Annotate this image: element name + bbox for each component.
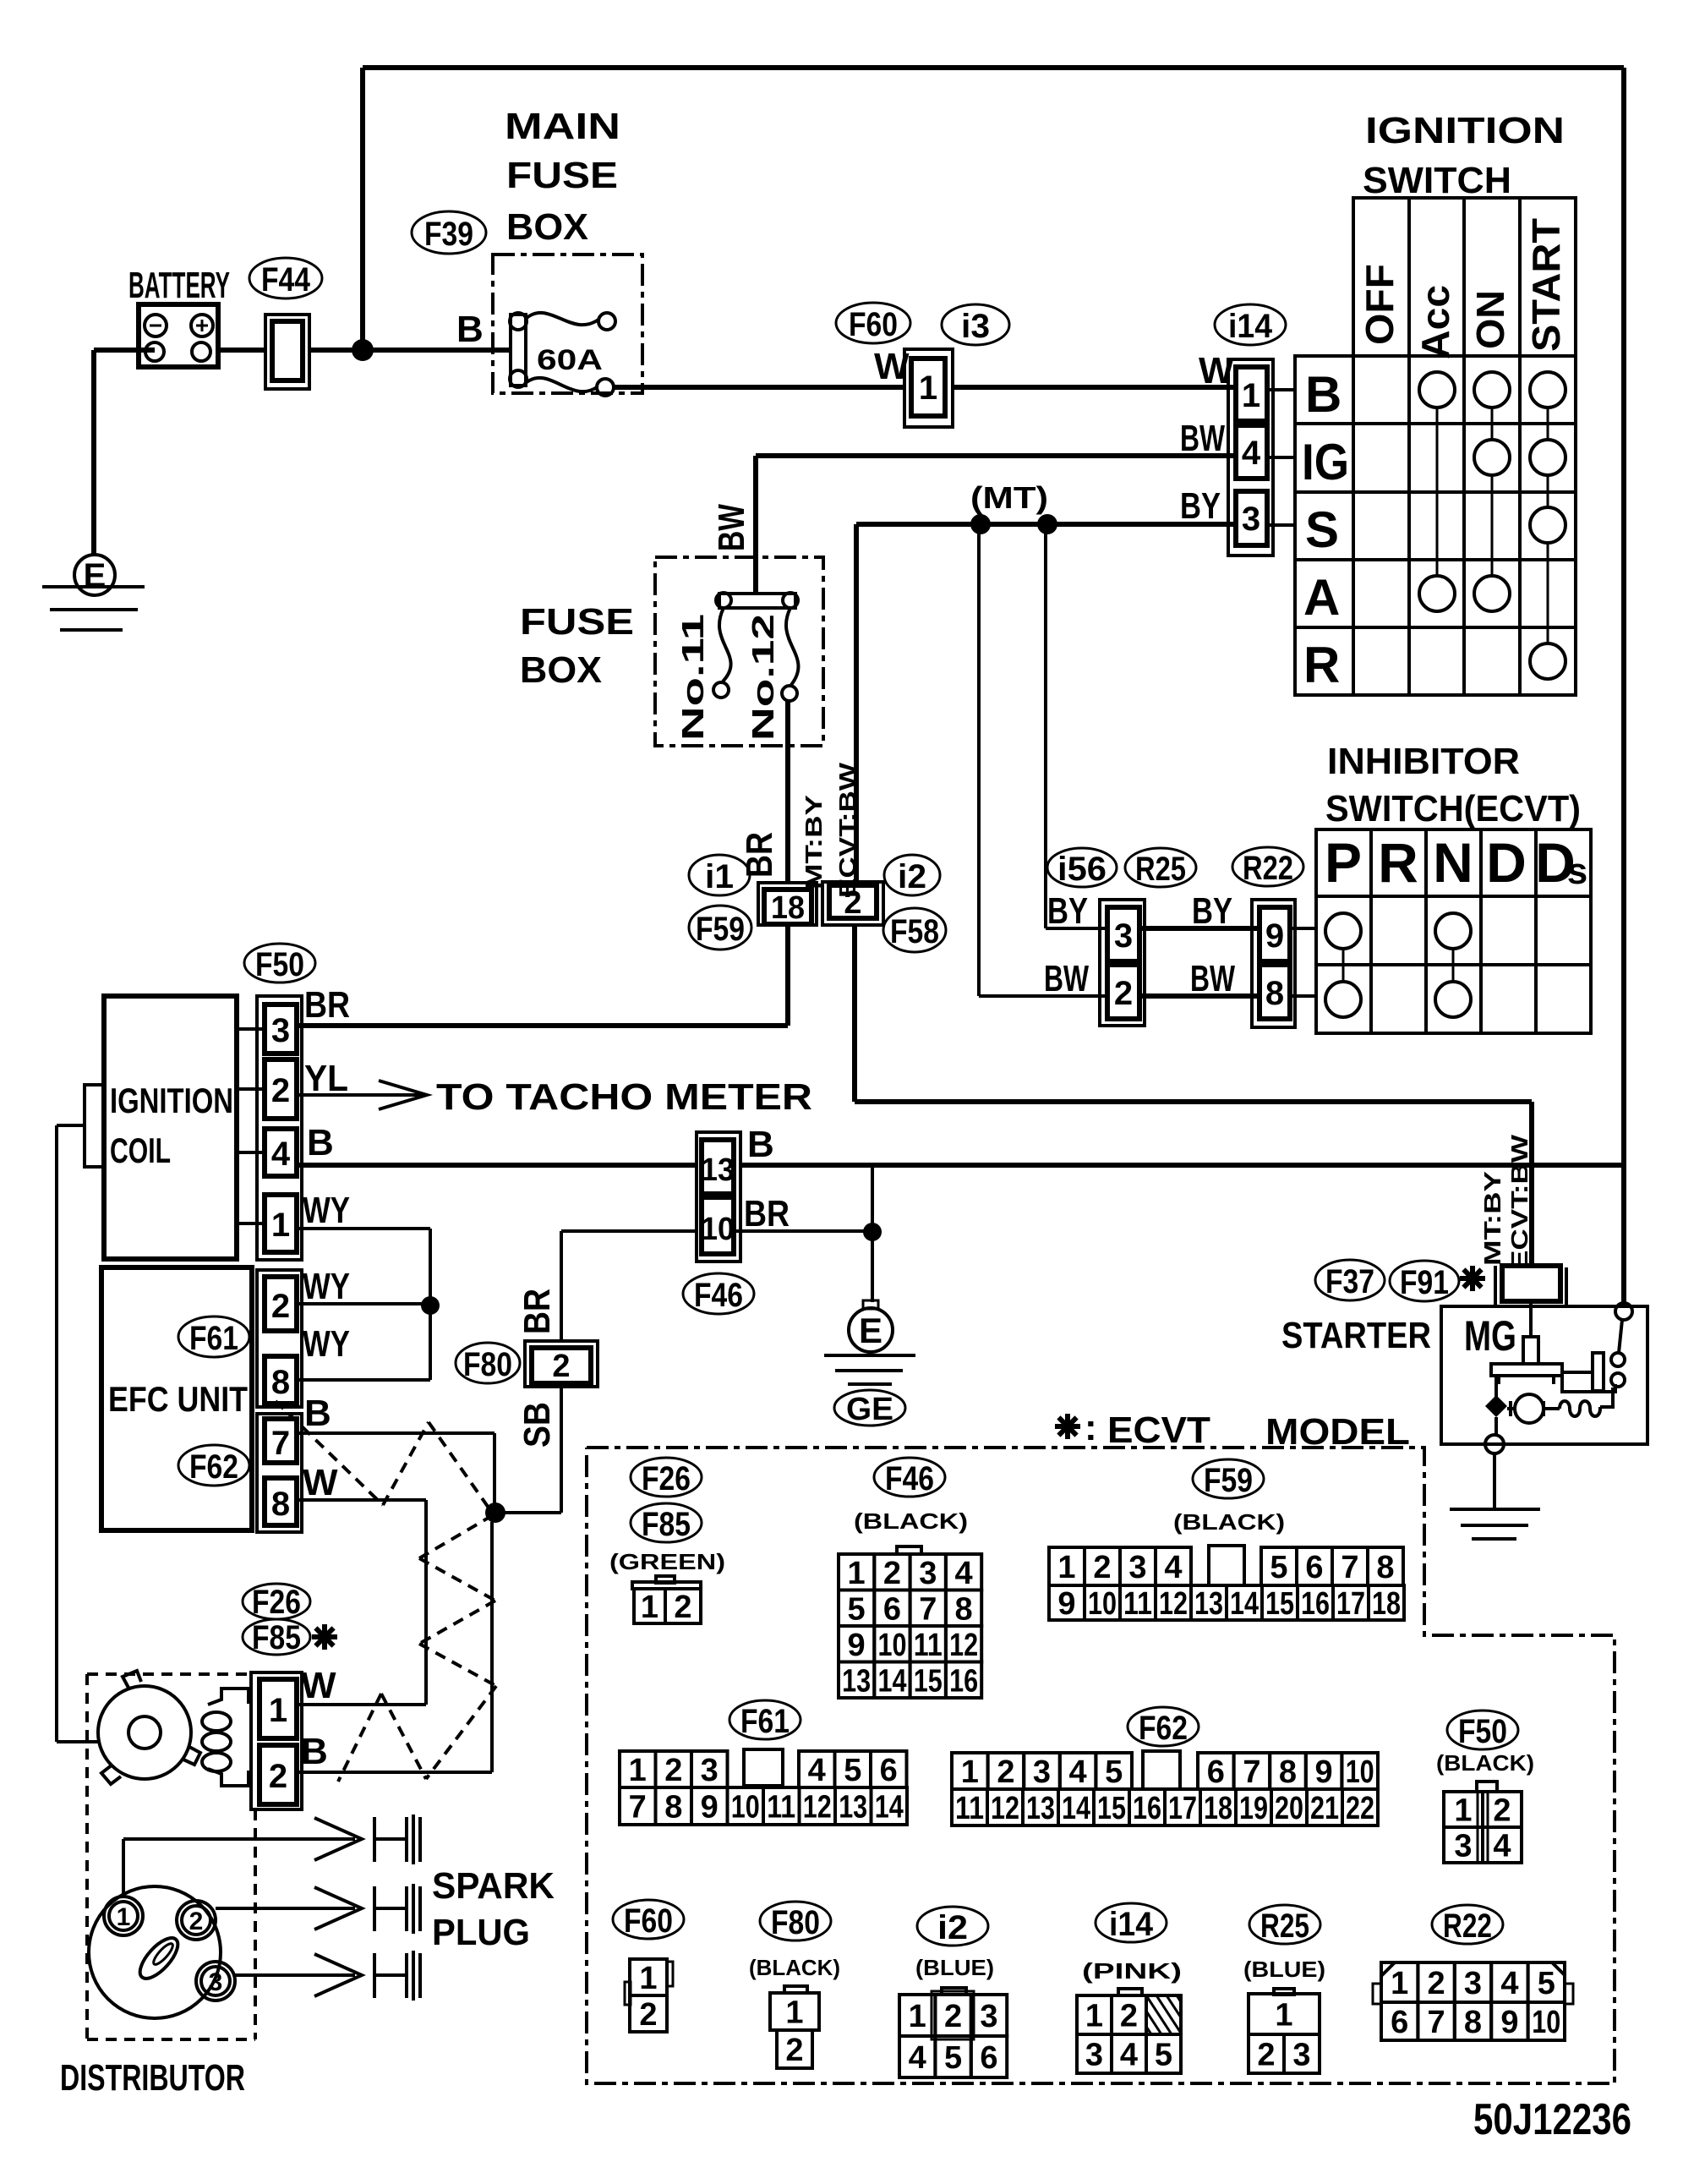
svg-text:15: 15 bbox=[914, 1663, 943, 1699]
svg-text:9: 9 bbox=[848, 1628, 866, 1663]
svg-text:4: 4 bbox=[1069, 1754, 1087, 1790]
svg-text:1: 1 bbox=[1391, 1966, 1408, 2001]
svg-text:BW: BW bbox=[1044, 958, 1089, 999]
svg-text:4: 4 bbox=[909, 2040, 926, 2076]
svg-text:12: 12 bbox=[991, 1791, 1019, 1826]
svg-text:MG: MG bbox=[1464, 1312, 1516, 1360]
svg-text:6: 6 bbox=[1207, 1754, 1225, 1790]
svg-text:F85: F85 bbox=[252, 1619, 301, 1656]
svg-text:2: 2 bbox=[552, 1349, 570, 1384]
svg-text:7: 7 bbox=[271, 1425, 290, 1462]
svg-text:15: 15 bbox=[1265, 1586, 1294, 1622]
svg-text:6: 6 bbox=[980, 2040, 997, 2076]
svg-text:2: 2 bbox=[674, 1590, 691, 1625]
svg-text:WY: WY bbox=[303, 1266, 350, 1307]
svg-text:B: B bbox=[1305, 366, 1341, 423]
svg-text:4: 4 bbox=[271, 1136, 291, 1173]
svg-text:2: 2 bbox=[1093, 1550, 1111, 1585]
svg-text:4: 4 bbox=[1493, 1829, 1511, 1864]
svg-text:ECVT:BW: ECVT:BW bbox=[834, 762, 861, 898]
svg-text:F58: F58 bbox=[890, 913, 939, 950]
svg-text:IGNITION: IGNITION bbox=[110, 1081, 233, 1120]
svg-text:START: START bbox=[1524, 218, 1568, 352]
svg-text:1: 1 bbox=[117, 1903, 131, 1931]
svg-text:BW: BW bbox=[1190, 958, 1235, 999]
svg-text:4: 4 bbox=[955, 1556, 973, 1591]
svg-text:11: 11 bbox=[767, 1790, 795, 1825]
svg-text:3: 3 bbox=[1114, 917, 1133, 955]
svg-text:BOX: BOX bbox=[506, 206, 588, 248]
svg-text:5: 5 bbox=[1155, 2038, 1172, 2073]
svg-text:13: 13 bbox=[1194, 1586, 1223, 1622]
svg-text:BY: BY bbox=[1192, 890, 1232, 932]
svg-text:YL: YL bbox=[304, 1058, 348, 1099]
svg-text:F26: F26 bbox=[642, 1460, 691, 1497]
svg-text:9: 9 bbox=[1265, 917, 1284, 955]
svg-text:13: 13 bbox=[839, 1790, 867, 1825]
svg-text:FUSE: FUSE bbox=[520, 601, 634, 643]
svg-text:MT:BY: MT:BY bbox=[801, 795, 827, 889]
svg-text:i14: i14 bbox=[1228, 308, 1273, 345]
svg-text:F50: F50 bbox=[255, 946, 304, 983]
svg-text:15: 15 bbox=[1097, 1791, 1126, 1826]
svg-text:F59: F59 bbox=[1204, 1462, 1253, 1499]
svg-text:(BLUE): (BLUE) bbox=[1243, 1957, 1325, 1982]
svg-text:F62: F62 bbox=[189, 1448, 238, 1486]
svg-text:1: 1 bbox=[1242, 377, 1260, 414]
svg-text:3: 3 bbox=[980, 1999, 997, 2034]
svg-text:3: 3 bbox=[209, 1968, 223, 1996]
svg-text:1: 1 bbox=[961, 1754, 979, 1790]
svg-text:17: 17 bbox=[1336, 1586, 1365, 1622]
svg-text:F80: F80 bbox=[771, 1904, 820, 1941]
svg-text:5: 5 bbox=[1270, 1550, 1287, 1585]
svg-text:8: 8 bbox=[1376, 1550, 1394, 1585]
svg-text:1: 1 bbox=[909, 1999, 926, 2034]
svg-text:2: 2 bbox=[639, 1997, 657, 2033]
svg-text:20: 20 bbox=[1275, 1791, 1303, 1826]
svg-text:21: 21 bbox=[1310, 1791, 1339, 1826]
svg-text:16: 16 bbox=[949, 1663, 978, 1699]
svg-text:12: 12 bbox=[803, 1790, 832, 1825]
svg-text:F59: F59 bbox=[696, 911, 745, 948]
svg-text:9: 9 bbox=[1057, 1586, 1075, 1622]
svg-text:OFF: OFF bbox=[1358, 264, 1402, 345]
svg-text:No.12: No.12 bbox=[746, 614, 780, 741]
svg-text:B: B bbox=[747, 1124, 774, 1165]
svg-text:1: 1 bbox=[1057, 1550, 1075, 1585]
svg-text:18: 18 bbox=[771, 890, 805, 926]
svg-text:14: 14 bbox=[875, 1790, 904, 1825]
svg-text:GE: GE bbox=[846, 1392, 893, 1427]
svg-text:DISTRIBUTOR: DISTRIBUTOR bbox=[60, 2057, 245, 2099]
svg-text:SPARK: SPARK bbox=[432, 1865, 555, 1907]
svg-text:2: 2 bbox=[1120, 1999, 1138, 2034]
svg-text:SB: SB bbox=[516, 1402, 558, 1448]
svg-text:2: 2 bbox=[944, 1999, 962, 2034]
svg-text:6: 6 bbox=[883, 1591, 901, 1627]
svg-text:10: 10 bbox=[1532, 2005, 1560, 2040]
svg-text:R25: R25 bbox=[1260, 1908, 1309, 1945]
svg-text:COIL: COIL bbox=[110, 1130, 171, 1170]
svg-text:1: 1 bbox=[785, 1995, 803, 2031]
svg-text:8: 8 bbox=[1464, 2005, 1482, 2040]
svg-text:s: s bbox=[1567, 851, 1587, 892]
svg-text:F85: F85 bbox=[642, 1506, 691, 1543]
svg-text:5: 5 bbox=[944, 2040, 962, 2076]
svg-text:7: 7 bbox=[629, 1790, 647, 1825]
svg-text:SWITCH: SWITCH bbox=[1363, 160, 1511, 201]
svg-text:BY: BY bbox=[1180, 485, 1221, 527]
svg-text:(BLACK): (BLACK) bbox=[1436, 1750, 1534, 1776]
svg-text:11: 11 bbox=[955, 1791, 984, 1826]
svg-text:BR: BR bbox=[516, 1289, 558, 1334]
svg-text:1: 1 bbox=[271, 1207, 290, 1244]
svg-text:F39: F39 bbox=[424, 216, 473, 253]
svg-text:1: 1 bbox=[641, 1590, 658, 1625]
svg-text:EFC UNIT: EFC UNIT bbox=[108, 1379, 248, 1419]
svg-text:(GREEN): (GREEN) bbox=[609, 1549, 725, 1574]
svg-text:2: 2 bbox=[664, 1753, 682, 1788]
svg-text:F46: F46 bbox=[885, 1460, 934, 1497]
svg-text:BOX: BOX bbox=[520, 649, 602, 691]
svg-text:18: 18 bbox=[1204, 1791, 1232, 1826]
svg-text:R25: R25 bbox=[1135, 851, 1186, 888]
svg-text:1: 1 bbox=[629, 1753, 647, 1788]
svg-text:F80: F80 bbox=[463, 1346, 512, 1383]
svg-text:10: 10 bbox=[1346, 1754, 1374, 1790]
svg-text:B: B bbox=[307, 1122, 334, 1163]
svg-text:2: 2 bbox=[1114, 975, 1133, 1012]
svg-text:5: 5 bbox=[848, 1591, 866, 1627]
svg-text:i3: i3 bbox=[961, 308, 990, 345]
svg-text:A: A bbox=[1303, 569, 1340, 626]
svg-text:3: 3 bbox=[1454, 1829, 1472, 1864]
svg-text:7: 7 bbox=[1243, 1754, 1260, 1790]
svg-text:F61: F61 bbox=[189, 1320, 238, 1357]
svg-text:W: W bbox=[301, 1665, 336, 1706]
svg-text:F62: F62 bbox=[1139, 1710, 1188, 1747]
svg-text:ECVT:BW: ECVT:BW bbox=[1506, 1134, 1533, 1270]
svg-text:4: 4 bbox=[1242, 435, 1261, 472]
svg-text:2: 2 bbox=[1257, 2038, 1275, 2073]
svg-text:2: 2 bbox=[1428, 1966, 1445, 2001]
svg-text:9: 9 bbox=[1315, 1754, 1333, 1790]
svg-text:5: 5 bbox=[844, 1753, 861, 1788]
svg-text:9: 9 bbox=[701, 1790, 719, 1825]
svg-text:14: 14 bbox=[1230, 1586, 1259, 1622]
svg-text:No.11: No.11 bbox=[675, 614, 710, 741]
svg-text:Acc: Acc bbox=[1413, 285, 1457, 359]
svg-text:3: 3 bbox=[1033, 1754, 1051, 1790]
svg-text:13: 13 bbox=[701, 1152, 735, 1188]
svg-text:9: 9 bbox=[1500, 2005, 1518, 2040]
svg-text:WY: WY bbox=[303, 1323, 350, 1365]
svg-text:(BLACK): (BLACK) bbox=[749, 1955, 840, 1980]
svg-text:5: 5 bbox=[1538, 1966, 1555, 2001]
svg-text:BR: BR bbox=[744, 1193, 790, 1234]
svg-text:STARTER: STARTER bbox=[1281, 1315, 1431, 1356]
svg-text:2: 2 bbox=[189, 1908, 204, 1935]
svg-text:7: 7 bbox=[1428, 2005, 1445, 2040]
svg-text:E: E bbox=[84, 557, 107, 594]
svg-text:i1: i1 bbox=[705, 858, 734, 895]
svg-text:ECVT: ECVT bbox=[1107, 1409, 1210, 1451]
svg-text:TO TACHO METER: TO TACHO METER bbox=[436, 1076, 812, 1118]
svg-text:14: 14 bbox=[1062, 1791, 1090, 1826]
svg-text:F61: F61 bbox=[740, 1703, 790, 1740]
svg-text:2: 2 bbox=[997, 1754, 1014, 1790]
svg-text:IG: IG bbox=[1302, 434, 1349, 490]
svg-text:1: 1 bbox=[269, 1692, 287, 1729]
svg-text:13: 13 bbox=[1026, 1791, 1055, 1826]
svg-text:6: 6 bbox=[1305, 1550, 1323, 1585]
svg-text:(MT): (MT) bbox=[970, 480, 1048, 515]
svg-text:WY: WY bbox=[303, 1190, 350, 1231]
svg-text:10: 10 bbox=[731, 1790, 760, 1825]
svg-text:2: 2 bbox=[271, 1072, 290, 1109]
svg-text:6: 6 bbox=[880, 1753, 898, 1788]
svg-text:2: 2 bbox=[269, 1758, 287, 1795]
svg-text:3: 3 bbox=[1242, 501, 1260, 538]
svg-text:7: 7 bbox=[919, 1591, 937, 1627]
svg-text:3: 3 bbox=[271, 1012, 290, 1049]
svg-text:2: 2 bbox=[785, 2033, 803, 2068]
svg-text:8: 8 bbox=[271, 1486, 290, 1523]
svg-text:INHIBITOR: INHIBITOR bbox=[1327, 741, 1520, 782]
svg-text::: : bbox=[1085, 1407, 1097, 1448]
svg-text:4: 4 bbox=[1164, 1550, 1182, 1585]
svg-text:2: 2 bbox=[883, 1556, 901, 1591]
svg-text:F91: F91 bbox=[1400, 1264, 1449, 1301]
svg-text:MAIN: MAIN bbox=[505, 106, 620, 147]
svg-text:i56: i56 bbox=[1057, 851, 1107, 888]
svg-text:F60: F60 bbox=[624, 1902, 673, 1940]
svg-text:10: 10 bbox=[701, 1212, 735, 1247]
svg-text:R22: R22 bbox=[1243, 850, 1293, 887]
svg-text:3: 3 bbox=[1292, 2038, 1310, 2073]
svg-text:2: 2 bbox=[844, 885, 861, 921]
svg-text:R: R bbox=[1378, 831, 1418, 894]
svg-text:F26: F26 bbox=[252, 1584, 301, 1621]
svg-text:BR: BR bbox=[739, 832, 780, 878]
svg-text:E: E bbox=[859, 1311, 882, 1350]
svg-text:BR: BR bbox=[304, 984, 350, 1026]
svg-text:6: 6 bbox=[1391, 2005, 1408, 2040]
svg-text:22: 22 bbox=[1346, 1791, 1374, 1826]
svg-text:(BLACK): (BLACK) bbox=[854, 1508, 968, 1534]
svg-text:B: B bbox=[301, 1731, 328, 1772]
svg-text:(BLUE): (BLUE) bbox=[915, 1955, 994, 1980]
svg-text:MT:BY: MT:BY bbox=[1479, 1171, 1505, 1266]
svg-text:50J12236: 50J12236 bbox=[1473, 2095, 1631, 2144]
svg-text:7: 7 bbox=[1341, 1550, 1358, 1585]
svg-text:3: 3 bbox=[1464, 1966, 1482, 2001]
svg-text:1: 1 bbox=[1085, 1999, 1103, 2034]
svg-text:11: 11 bbox=[1123, 1586, 1152, 1622]
svg-text:8: 8 bbox=[1279, 1754, 1297, 1790]
svg-text:S: S bbox=[1305, 501, 1339, 558]
svg-text:12: 12 bbox=[1159, 1586, 1188, 1622]
svg-text:W: W bbox=[303, 1462, 338, 1503]
svg-text:F50: F50 bbox=[1458, 1713, 1507, 1750]
svg-text:W: W bbox=[1199, 350, 1234, 391]
svg-text:P: P bbox=[1325, 831, 1362, 894]
svg-text:10: 10 bbox=[1088, 1586, 1117, 1622]
svg-text:(PINK): (PINK) bbox=[1082, 1958, 1182, 1984]
svg-text:3: 3 bbox=[919, 1556, 937, 1591]
svg-text:14: 14 bbox=[878, 1663, 907, 1699]
svg-text:5: 5 bbox=[1105, 1754, 1123, 1790]
svg-text:4: 4 bbox=[1120, 2038, 1138, 2073]
svg-text:60A: 60A bbox=[537, 344, 603, 376]
svg-text:i14: i14 bbox=[1109, 1906, 1154, 1943]
svg-text:3: 3 bbox=[1128, 1550, 1146, 1585]
svg-text:3: 3 bbox=[701, 1753, 719, 1788]
svg-text:R22: R22 bbox=[1443, 1908, 1492, 1945]
svg-text:BW: BW bbox=[1180, 418, 1225, 459]
svg-text:1: 1 bbox=[848, 1556, 866, 1591]
svg-text:1: 1 bbox=[919, 369, 937, 407]
svg-text:(BLACK): (BLACK) bbox=[1173, 1509, 1285, 1535]
svg-text:3: 3 bbox=[1085, 2038, 1103, 2073]
svg-text:F46: F46 bbox=[694, 1277, 743, 1314]
svg-text:17: 17 bbox=[1168, 1791, 1197, 1826]
svg-text:8: 8 bbox=[1265, 975, 1284, 1012]
svg-text:SWITCH(ECVT): SWITCH(ECVT) bbox=[1325, 788, 1581, 829]
svg-text:IGNITION: IGNITION bbox=[1365, 110, 1565, 151]
svg-text:1: 1 bbox=[1275, 1998, 1292, 2033]
svg-text:i2: i2 bbox=[898, 858, 926, 895]
svg-text:12: 12 bbox=[949, 1628, 978, 1663]
svg-text:N: N bbox=[1433, 831, 1473, 894]
svg-text:8: 8 bbox=[664, 1790, 682, 1825]
svg-text:16: 16 bbox=[1301, 1586, 1330, 1622]
svg-text:R: R bbox=[1303, 637, 1340, 693]
svg-text:PLUG: PLUG bbox=[432, 1912, 530, 1953]
svg-text:FUSE: FUSE bbox=[506, 155, 618, 196]
svg-text:1: 1 bbox=[1454, 1793, 1472, 1829]
svg-text:i2: i2 bbox=[937, 1909, 968, 1946]
svg-text:F37: F37 bbox=[1325, 1263, 1374, 1300]
svg-text:BW: BW bbox=[711, 504, 752, 551]
svg-text:10: 10 bbox=[878, 1628, 907, 1663]
svg-text:13: 13 bbox=[842, 1663, 871, 1699]
svg-text:B: B bbox=[304, 1393, 331, 1434]
svg-text:8: 8 bbox=[271, 1364, 290, 1401]
svg-text:16: 16 bbox=[1133, 1791, 1161, 1826]
svg-text:2: 2 bbox=[271, 1288, 290, 1325]
svg-text:B: B bbox=[456, 309, 484, 350]
svg-text:8: 8 bbox=[955, 1591, 973, 1627]
svg-text:19: 19 bbox=[1239, 1791, 1268, 1826]
svg-text:BY: BY bbox=[1047, 890, 1088, 932]
svg-text:D: D bbox=[1486, 831, 1527, 894]
svg-text:4: 4 bbox=[808, 1753, 826, 1788]
svg-text:1: 1 bbox=[639, 1961, 657, 1996]
svg-text:4: 4 bbox=[1500, 1966, 1518, 2001]
svg-text:ON: ON bbox=[1468, 290, 1512, 349]
svg-text:F44: F44 bbox=[261, 261, 311, 298]
svg-text:18: 18 bbox=[1372, 1586, 1401, 1622]
svg-text:2: 2 bbox=[1493, 1793, 1511, 1829]
svg-text:BATTERY: BATTERY bbox=[128, 265, 230, 306]
svg-text:11: 11 bbox=[914, 1628, 943, 1663]
svg-text:F60: F60 bbox=[849, 306, 898, 343]
